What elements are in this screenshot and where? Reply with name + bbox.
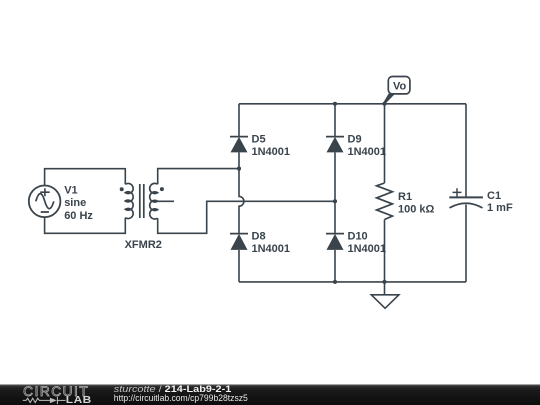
wire C1 bottom lead (465, 205, 467, 282)
label D5 1N4001 (252, 134, 291, 159)
wire XFMR2 primary bottom to V1 bottom (45, 217, 126, 233)
diode D9 (326, 137, 344, 153)
node junction dot secondary-bottom / right leg (333, 199, 337, 203)
transformer XFMR2 primary winding (125, 183, 133, 218)
wire bottom bus (239, 281, 466, 283)
svg-text:sine: sine (64, 197, 86, 209)
node junction dot secondary-top / left leg (237, 167, 241, 171)
label D10 1N4001 (348, 231, 387, 255)
footer bar (0, 384, 540, 405)
svg-text:1N4001: 1N4001 (252, 146, 291, 158)
transformer XFMR2 secondary polarity dot (160, 187, 164, 191)
label D9 1N4001 (348, 134, 387, 159)
node Vo flag (384, 77, 410, 103)
capacitor C1 (449, 188, 483, 208)
label R1 100 kOhm (398, 191, 435, 216)
wire D5 anode to mid junction (238, 152, 240, 168)
svg-text:1N4001: 1N4001 (348, 243, 387, 255)
svg-text:http://circuitlab.com/cp799b28: http://circuitlab.com/cp799b28tzsz5 (114, 393, 248, 403)
label D8 1N4001 (252, 231, 291, 255)
diode D5 (230, 137, 248, 153)
wire top bus (239, 103, 466, 105)
wire left leg mid with hop over tap wire (239, 169, 244, 234)
wire D9 cathode to top bus (334, 104, 336, 137)
svg-text:XFMR2: XFMR2 (125, 239, 162, 251)
svg-text:D10: D10 (348, 231, 368, 243)
svg-text:D5: D5 (252, 134, 266, 146)
ground (371, 295, 399, 309)
svg-text:R1: R1 (398, 191, 412, 203)
label C1 1 mF (487, 190, 513, 214)
diode D8 (230, 234, 248, 250)
svg-text:1N4001: 1N4001 (252, 243, 291, 255)
svg-text:1 mF: 1 mF (487, 202, 513, 214)
svg-text:D8: D8 (252, 231, 266, 243)
wire D10 anode to bottom bus (334, 250, 336, 282)
wire D9 anode to right mid junction to D10 cathode (334, 152, 336, 233)
svg-text:LAB: LAB (66, 395, 92, 405)
label V1 sine 60 Hz (64, 184, 93, 222)
svg-text:1N4001: 1N4001 (348, 146, 387, 158)
wire C1 top lead (465, 104, 467, 198)
transformer XFMR2 core (140, 184, 144, 218)
CircuitLab logo schematic row (23, 397, 66, 404)
transformer XFMR2 center tap stub (158, 200, 174, 202)
svg-text:V1: V1 (64, 184, 77, 196)
svg-text:60 Hz: 60 Hz (64, 210, 93, 222)
svg-text:100 kΩ: 100 kΩ (398, 204, 435, 216)
svg-text:C1: C1 (487, 190, 501, 202)
node junction dot top bus at D9 leg (333, 102, 337, 106)
wire XFMR2 secondary bottom to bridge right leg (158, 201, 335, 233)
transformer XFMR2 secondary winding (150, 183, 158, 219)
transformer XFMR2 primary polarity dot (120, 187, 124, 191)
node junction dot bottom bus at D10 leg (333, 280, 337, 284)
resistor R1 (377, 183, 393, 220)
wire R1 bottom lead (384, 220, 386, 282)
voltage source V1 (29, 186, 61, 218)
wire D8 anode to bottom bus (238, 250, 240, 282)
wire ground stub (384, 282, 386, 295)
node junction dot top bus at R1 leg (Vo) (382, 102, 386, 106)
wire V1 top to XFMR2 primary top (45, 169, 126, 186)
wire XFMR2 secondary top to bridge left leg (158, 169, 239, 185)
node junction dot bottom bus at R1/ground leg (382, 280, 386, 284)
svg-text:Vo: Vo (393, 81, 407, 93)
wire D5 cathode to top bus (238, 104, 240, 137)
wire R1 top lead (384, 104, 386, 183)
svg-text:D9: D9 (348, 134, 362, 146)
diode D10 (326, 234, 344, 250)
